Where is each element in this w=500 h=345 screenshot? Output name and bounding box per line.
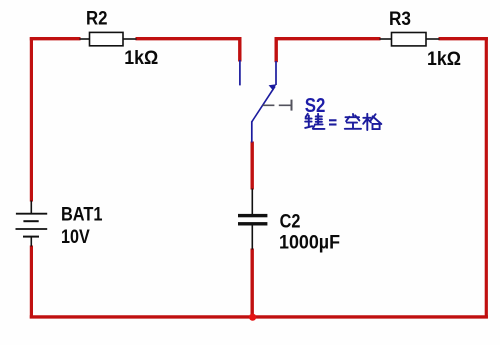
battery BAT1 plate 2 (short) (23, 220, 38, 222)
wire: switch right to R3 (275, 37, 381, 40)
wire: bottom horizontal (30, 315, 488, 318)
label 键 (glyph: key) (305, 114, 324, 129)
svg-text:R2: R2 (86, 9, 108, 30)
capacitor C2 top plate (238, 214, 267, 217)
label 格 (glyph: space 2) (363, 114, 381, 130)
wire: right vertical (485, 37, 488, 318)
svg-text:10V: 10V (61, 227, 90, 248)
node: junction dot (249, 314, 256, 321)
resistor R2 leads (80, 38, 137, 40)
wire: switch right contact drop (275, 37, 278, 62)
svg-text:C2: C2 (280, 212, 301, 233)
wire: battery bottom to corner (30, 246, 33, 319)
battery BAT1 top lead (30, 201, 32, 214)
svg-text:1kΩ: 1kΩ (427, 49, 461, 70)
capacitor C2 bottom plate (238, 222, 267, 225)
svg-text:1000µF: 1000µF (279, 232, 340, 253)
wire: switch pole down to capacitor (250, 142, 253, 190)
switch S2 right contact stub (275, 61, 277, 85)
wire: R3 to top-right corner (439, 37, 488, 40)
svg-text:1kΩ: 1kΩ (124, 48, 158, 69)
battery BAT1 bottom lead (30, 237, 32, 247)
resistor R3 leads (380, 38, 440, 40)
wire: top-left horizontal to R2 (30, 37, 81, 40)
switch S2 blade arrow (269, 84, 277, 90)
capacitor C2 bottom lead (251, 226, 253, 250)
switch S2 actuator dashed line (263, 104, 291, 106)
capacitor C2 top lead (251, 189, 253, 215)
label = (in 键 = 空格) (329, 120, 337, 124)
switch S2 pole segment (251, 121, 253, 142)
battery BAT1 plate 3 (long) (16, 228, 48, 230)
battery BAT1 plate 1 (long) (16, 213, 47, 215)
svg-text:BAT1: BAT1 (61, 205, 103, 226)
switch S2 left contact stub (239, 60, 241, 85)
svg-text:R3: R3 (389, 9, 411, 30)
switch S2 blade (252, 87, 275, 122)
battery BAT1 plate 4 (short) (23, 236, 39, 238)
wire: capacitor to bottom junction (250, 249, 253, 318)
switch S2 actuator end bar (291, 100, 293, 111)
wire: left vertical (battery branch top) (30, 37, 33, 201)
resistor R2 body (90, 32, 124, 45)
wire: switch left contact drop (238, 37, 241, 61)
wire: R2 to switch left contact (136, 37, 242, 40)
resistor R3 body (392, 33, 427, 46)
label 空 (glyph: space 1) (345, 114, 361, 129)
